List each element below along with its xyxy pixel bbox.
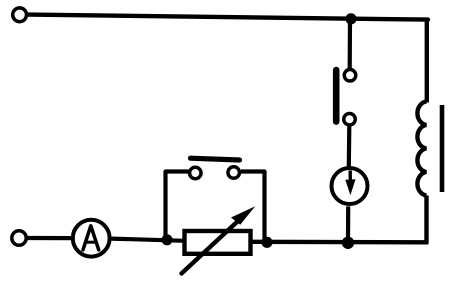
wire (right vertical, coil top up to top corner) xyxy=(425,19,429,103)
wire (left riser of push-button branch) xyxy=(166,172,189,240)
switch S1 bottom contact xyxy=(344,113,356,125)
terminal T2 (bottom-left input terminal) xyxy=(12,231,26,245)
wire (right vertical, corner up to coil bottom) xyxy=(424,196,428,244)
wire (from switch S1 down to galvanometer G) xyxy=(347,126,352,167)
wire (ammeter to rheostat, bottom) xyxy=(112,239,186,241)
wire (from node J1 down to switch S1) xyxy=(348,19,352,69)
rheostat R adjustment arrow xyxy=(182,206,256,273)
push-button S2 right contact xyxy=(228,167,240,179)
node J2 (junction on bottom wire below galvanometer) xyxy=(342,237,354,249)
wire (from galvanometer G down to bottom node J2) xyxy=(346,206,350,243)
galvanometer G (circle) xyxy=(332,168,368,204)
node J1 (junction on top wire) xyxy=(345,13,356,24)
wire (right riser of push-button branch) xyxy=(241,172,265,243)
ammeter A (circle) xyxy=(73,220,110,257)
ammeter A letter xyxy=(83,226,99,250)
terminal T1 (top-left input terminal) xyxy=(13,8,27,22)
wire (top horizontal from T1 to right corner) xyxy=(28,15,429,20)
switch S1 blade bar xyxy=(333,70,340,122)
inductor L1 coil (four arcs) xyxy=(417,102,426,196)
node J3 (junction left of rheostat) xyxy=(162,234,173,245)
inductor L1 iron core line xyxy=(440,105,445,192)
wire (rheostat to right corner, bottom) xyxy=(251,240,429,245)
switch S1 top contact xyxy=(344,70,356,82)
galvanometer G needle arrow xyxy=(345,171,355,196)
node J4 (junction right of rheostat) xyxy=(261,237,272,248)
wire (T2 to ammeter) xyxy=(28,236,74,240)
push-button S2 left contact xyxy=(190,167,202,179)
push-button S2 actuator bar xyxy=(191,158,240,160)
rheostat R body xyxy=(185,231,251,254)
